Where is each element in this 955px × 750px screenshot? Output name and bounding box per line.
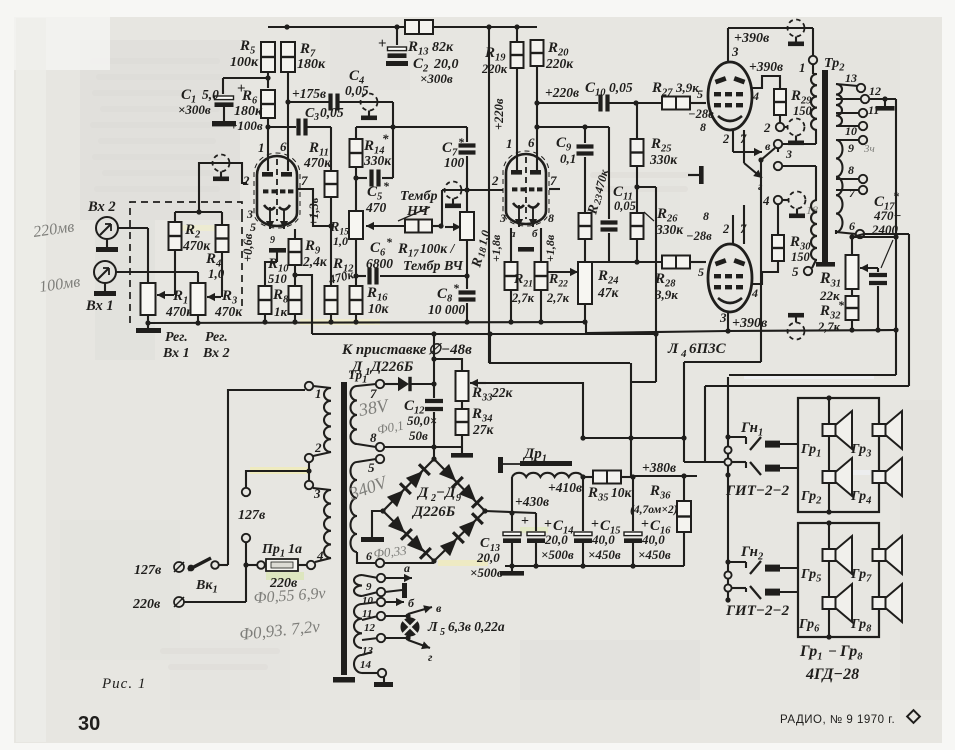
label R21 bbox=[511, 272, 535, 305]
wire output common bbox=[893, 99, 898, 375]
wire CT B+ drop bbox=[758, 148, 778, 362]
wire anode row y127 bbox=[534, 124, 609, 129]
svg-text:1: 1 bbox=[258, 140, 265, 155]
svg-text:470к: 470к bbox=[214, 304, 243, 319]
svg-text:11: 11 bbox=[868, 103, 879, 117]
svg-text:22к: 22к bbox=[819, 288, 840, 303]
svg-text:5,0: 5,0 bbox=[202, 87, 219, 102]
speaker Gr4 bbox=[873, 458, 903, 496]
svg-text:+380в: +380в bbox=[642, 460, 676, 475]
speaker box 1 bbox=[798, 395, 879, 514]
resistor R10 bbox=[289, 275, 302, 325]
svg-text:9: 9 bbox=[270, 235, 275, 246]
label +220v bbox=[545, 85, 579, 100]
svg-text:+220в: +220в bbox=[492, 98, 506, 130]
label C5 bbox=[365, 179, 390, 215]
label C4 bbox=[345, 68, 369, 98]
pin labels L3 bbox=[491, 135, 557, 240]
pot R15 bass bbox=[349, 178, 363, 239]
svg-text:330к: 330к bbox=[655, 222, 684, 237]
shield mid lower bbox=[782, 192, 806, 219]
svg-text:4: 4 bbox=[751, 286, 758, 300]
jack Gn2 node2 bbox=[725, 597, 730, 602]
label C8 bbox=[428, 281, 465, 317]
diode D1 bbox=[384, 377, 437, 391]
wire mains up bbox=[228, 390, 305, 565]
label 11 bbox=[362, 608, 372, 620]
svg-text:+: + bbox=[544, 517, 552, 532]
label R17 bbox=[397, 241, 463, 274]
pencil F01 bbox=[376, 418, 405, 437]
cathode ground out bbox=[688, 166, 704, 184]
svg-text:10: 10 bbox=[362, 595, 374, 607]
capacitor C13 bbox=[503, 513, 521, 569]
arrow g feed bbox=[744, 163, 763, 193]
dashed screen box bbox=[130, 202, 242, 323]
label +0,6в bbox=[241, 233, 255, 262]
resistor R35 bbox=[583, 471, 636, 484]
svg-text:1: 1 bbox=[315, 386, 322, 401]
wire R11-R12 bbox=[330, 226, 332, 286]
svg-text:Рис. 1: Рис. 1 bbox=[101, 676, 146, 692]
jack Gn2 term2 bbox=[724, 584, 731, 591]
label L4 6P3S bbox=[667, 341, 727, 360]
anode wire upper bbox=[728, 28, 739, 63]
label Vx1 bbox=[85, 298, 114, 314]
label C12 bbox=[404, 398, 437, 443]
svg-text:127в: 127в bbox=[238, 508, 266, 523]
label Pr1 bbox=[261, 542, 302, 560]
Tr2 primary upper bbox=[811, 64, 817, 130]
resistor R22 bbox=[535, 228, 548, 325]
svg-text:*: * bbox=[838, 298, 845, 312]
svg-text:Вх 2: Вх 2 bbox=[87, 199, 116, 215]
bridge diamond bbox=[380, 456, 487, 563]
pin 5 upper bbox=[697, 87, 703, 101]
label 9 bbox=[366, 581, 372, 593]
wire term6 right bbox=[864, 233, 909, 235]
pot R3 bbox=[191, 283, 222, 315]
speaker Gr6 bbox=[823, 584, 853, 622]
svg-text:+175в: +175в bbox=[292, 86, 326, 101]
pencil 220mv bbox=[32, 218, 75, 241]
resistor R2 bbox=[169, 212, 182, 250]
jack Gn2 node1 bbox=[725, 559, 730, 564]
label RADIO footer bbox=[780, 714, 895, 726]
svg-text:20,0: 20,0 bbox=[476, 550, 500, 565]
wire R4 wiper bbox=[221, 252, 223, 297]
label +175в bbox=[292, 86, 326, 101]
label D1 D226B bbox=[350, 359, 414, 378]
filament pins lower bbox=[722, 222, 747, 236]
wire pots bottom bbox=[145, 315, 200, 326]
jack Gn2 term1 bbox=[724, 571, 731, 578]
arrow v bbox=[408, 601, 442, 615]
svg-text:1,0: 1,0 bbox=[333, 234, 348, 248]
label R33 bbox=[471, 385, 514, 404]
svg-text:3: 3 bbox=[719, 310, 727, 325]
label 13 bbox=[362, 645, 374, 657]
svg-text:а: а bbox=[404, 561, 410, 575]
svg-text:3,9к: 3,9к bbox=[654, 287, 678, 302]
Tr1 sec 7-8 bbox=[351, 380, 385, 451]
Tr2 core end bar bbox=[816, 262, 835, 267]
svg-text:−Д: −Д bbox=[436, 485, 456, 501]
resistor R4 bbox=[216, 212, 229, 252]
label +390 screen bbox=[749, 59, 783, 74]
capacitor C10 bbox=[601, 95, 608, 112]
svg-text:220в: 220в bbox=[132, 597, 161, 612]
node C1 tap bbox=[265, 75, 270, 80]
svg-text:470−: 470− bbox=[873, 208, 902, 223]
label R25 bbox=[649, 136, 678, 167]
terminal 11 bbox=[836, 103, 879, 117]
svg-text:*: * bbox=[386, 235, 393, 249]
svg-text:+: + bbox=[521, 514, 529, 529]
resistor R20 bbox=[531, 40, 544, 66]
label R9 bbox=[302, 238, 328, 269]
label Gr8 bbox=[850, 617, 872, 635]
svg-text:40,0: 40,0 bbox=[641, 532, 665, 547]
wire bridge bottom bbox=[384, 561, 434, 563]
label D2-D9 bbox=[411, 485, 461, 520]
label C16 bbox=[638, 517, 671, 562]
wire y438 bbox=[580, 435, 686, 440]
svg-text:9: 9 bbox=[456, 493, 461, 504]
bridge diodes D4-D5 bbox=[439, 464, 483, 508]
svg-text:6,3в 0,22а: 6,3в 0,22а bbox=[448, 619, 505, 634]
label R19 bbox=[481, 45, 508, 76]
resistor R5 bbox=[261, 42, 275, 72]
svg-text:0,05: 0,05 bbox=[320, 105, 344, 120]
label Tr2 bbox=[824, 56, 845, 74]
label Tr1 bbox=[348, 367, 367, 386]
label 22k bbox=[819, 288, 840, 303]
label Vx2 bbox=[87, 199, 116, 215]
fuse Pr1 bbox=[246, 559, 307, 571]
wire anode6 L3 bbox=[536, 66, 538, 172]
svg-text:330к: 330к bbox=[649, 152, 678, 167]
svg-text:4: 4 bbox=[762, 193, 770, 208]
wiper arrow R31 bbox=[860, 264, 878, 272]
capacitor C17 bbox=[869, 268, 887, 333]
capacitor C7 bbox=[459, 127, 476, 193]
svg-text:ГИТ−2−2: ГИТ−2−2 bbox=[725, 483, 790, 499]
chassis bar 10 bbox=[385, 583, 407, 598]
label C17 bbox=[871, 189, 902, 237]
svg-text:6П3С: 6П3С bbox=[689, 341, 727, 357]
svg-text:×450в: ×450в bbox=[588, 547, 621, 562]
svg-text:б: б bbox=[408, 596, 415, 610]
label 14 bbox=[360, 659, 372, 671]
label R12 bbox=[326, 256, 355, 287]
terminal 3b Tr2 bbox=[774, 162, 816, 200]
svg-text:С: С bbox=[480, 536, 490, 551]
label R5 bbox=[230, 38, 259, 70]
capacitor C2 bbox=[378, 24, 408, 66]
svg-text:6800: 6800 bbox=[366, 256, 393, 271]
label R32 bbox=[817, 298, 845, 334]
Tr1 core bbox=[341, 382, 347, 675]
node +175v bbox=[285, 99, 290, 104]
svg-text:Тембр ВЧ: Тембр ВЧ bbox=[403, 259, 463, 274]
cathode bar L1 bbox=[265, 248, 286, 286]
svg-text:6: 6 bbox=[528, 135, 535, 150]
label Gr1 bbox=[800, 442, 821, 460]
svg-text:Д226Б: Д226Б bbox=[369, 359, 414, 375]
svg-text:12: 12 bbox=[364, 622, 376, 634]
wire grid drop bbox=[441, 190, 443, 226]
wire B+ riser bbox=[631, 363, 656, 476]
svg-text:2: 2 bbox=[491, 173, 499, 188]
label +390v top bbox=[734, 31, 770, 46]
svg-text:×300в: ×300в bbox=[420, 71, 453, 86]
svg-text:+: + bbox=[378, 36, 387, 52]
terminal 8 bbox=[836, 163, 867, 183]
label +390v bottom bbox=[732, 316, 768, 331]
wire grid2 R11 bbox=[298, 189, 331, 226]
resistor R19 bbox=[511, 27, 524, 68]
label C1 bbox=[178, 87, 219, 117]
label R4 bbox=[205, 251, 225, 281]
Tr1 sec 5-6 bbox=[351, 455, 385, 567]
wire spk feed bbox=[729, 374, 896, 376]
wire ground bus bbox=[148, 322, 586, 323]
label Gr2 bbox=[800, 489, 822, 507]
label R28 bbox=[654, 271, 678, 302]
shield bottom bbox=[788, 313, 805, 340]
wire R7 down bbox=[287, 72, 289, 171]
Tr1 primary lower bbox=[313, 488, 331, 562]
svg-text:Рег.: Рег. bbox=[205, 330, 228, 345]
Tr2 secondary 1 bbox=[836, 84, 858, 126]
jack Gn2 contact2 bbox=[732, 586, 798, 599]
svg-text:г: г bbox=[428, 650, 433, 664]
pot R31 bbox=[846, 237, 859, 289]
capacitor C3 bbox=[299, 119, 306, 136]
Tr1 heater 9-10 bbox=[354, 574, 385, 596]
Tr2 primary CT wires bbox=[782, 130, 816, 144]
ground 8 row bbox=[451, 447, 473, 458]
svg-text:Вх 2: Вх 2 bbox=[202, 346, 230, 361]
svg-text:*: * bbox=[382, 131, 389, 146]
arrow a bbox=[385, 561, 412, 582]
label 220v fuse bbox=[269, 576, 298, 591]
capacitor C1 bbox=[212, 81, 246, 126]
filament wires lower bbox=[733, 205, 744, 244]
switch Vk1 bbox=[134, 558, 228, 578]
pot R1 bbox=[141, 283, 175, 315]
pencil F033 bbox=[373, 543, 408, 561]
svg-text:+1,8в: +1,8в bbox=[489, 234, 503, 262]
jack Gn1 contact2 bbox=[732, 462, 798, 475]
svg-text:50,0×: 50,0× bbox=[407, 413, 437, 428]
svg-text:Д226Б: Д226Б bbox=[411, 504, 456, 520]
svg-text:20,0: 20,0 bbox=[544, 532, 568, 547]
svg-text:8: 8 bbox=[548, 211, 554, 225]
tube L3 6N2P bbox=[503, 151, 549, 227]
svg-text:+0,6в: +0,6в bbox=[241, 233, 255, 262]
wire R9 feedback bbox=[295, 275, 312, 334]
wire R6 to anode1 bbox=[267, 118, 269, 171]
svg-text:7: 7 bbox=[550, 173, 557, 188]
resistor R23 bbox=[579, 213, 592, 262]
svg-text:×500в: ×500в bbox=[470, 565, 503, 580]
svg-text:8: 8 bbox=[370, 430, 377, 445]
label Reg Vx1 bbox=[162, 330, 190, 361]
label R34 bbox=[471, 406, 495, 437]
label R16 bbox=[366, 285, 390, 316]
label 12 bbox=[364, 622, 376, 634]
wire 8 row bbox=[384, 446, 462, 448]
svg-text:4ГД−28: 4ГД−28 bbox=[805, 666, 859, 683]
svg-text:+390в: +390в bbox=[734, 31, 770, 46]
tube L4 upper bbox=[708, 62, 752, 130]
terminal 3a Tr2 bbox=[774, 140, 792, 161]
terminal 1 Tr2 bbox=[799, 56, 817, 75]
ground 340 tap bbox=[361, 511, 384, 542]
svg-text:13: 13 bbox=[845, 71, 857, 85]
Tr2 core bbox=[822, 70, 828, 266]
svg-text:Л: Л bbox=[667, 341, 679, 357]
wire lamp top bbox=[385, 613, 411, 618]
wire C10-R27 bbox=[609, 100, 662, 105]
wire step net bbox=[487, 331, 630, 363]
svg-text:−28в: −28в bbox=[686, 229, 712, 243]
terminal 4 Tr1 bbox=[307, 548, 324, 569]
svg-text:*: * bbox=[383, 179, 390, 193]
label K pristavke bbox=[341, 342, 472, 358]
svg-text:150: 150 bbox=[793, 104, 813, 118]
label 127v tap bbox=[238, 508, 266, 523]
terminal 5 Tr2 bbox=[792, 260, 816, 279]
label R10 510 bbox=[267, 256, 289, 286]
jack Gn1 node2 bbox=[725, 472, 730, 477]
label L5 bbox=[427, 619, 505, 638]
svg-text:9: 9 bbox=[848, 141, 854, 155]
wire fb row bbox=[486, 383, 583, 438]
input jack Vx1 bbox=[94, 261, 116, 283]
wire grid row L2 bbox=[442, 189, 503, 191]
shield grid L2 bbox=[445, 182, 462, 209]
label Tembr NCh bbox=[398, 189, 438, 221]
wire R5-R6 bbox=[267, 72, 269, 88]
svg-text:ГИТ−2−2: ГИТ−2−2 bbox=[725, 603, 790, 619]
node +220 bbox=[534, 100, 539, 105]
speaker Gr2 bbox=[823, 458, 853, 496]
svg-text:Вх 1: Вх 1 bbox=[162, 346, 190, 361]
bridge diodes D2-D3 bbox=[387, 464, 430, 507]
label C2 bbox=[413, 56, 459, 86]
svg-text:10: 10 bbox=[845, 124, 857, 138]
wire term6 node bbox=[835, 230, 837, 234]
shield input grid bbox=[213, 155, 230, 182]
wire out row bbox=[684, 361, 761, 363]
pin labels L1 bbox=[242, 139, 308, 246]
node R5/R7 top bbox=[284, 24, 519, 29]
wire R2 wiper bbox=[174, 250, 176, 295]
wire R29 term2 bbox=[779, 115, 781, 123]
svg-text:470к: 470к bbox=[303, 155, 332, 170]
capacitor C15 bbox=[574, 477, 592, 569]
pencil 340V bbox=[346, 471, 391, 504]
svg-text:40,0: 40,0 bbox=[591, 532, 615, 547]
wire Vx1 to R1 bbox=[116, 272, 198, 285]
svg-text:+: + bbox=[591, 517, 599, 532]
resistor R17 bbox=[405, 220, 444, 233]
wire bus step bbox=[586, 322, 894, 333]
arrow v feed bbox=[733, 139, 771, 156]
speaker Gr3 bbox=[873, 411, 903, 449]
svg-text:10 000: 10 000 bbox=[428, 302, 465, 317]
svg-text:5: 5 bbox=[368, 460, 375, 475]
svg-text:2,4к: 2,4к bbox=[302, 254, 328, 269]
wire bridge out bbox=[485, 510, 536, 515]
pencil 3ch bbox=[863, 143, 875, 155]
svg-text:7: 7 bbox=[301, 173, 308, 188]
wire +380 rail bbox=[633, 473, 697, 478]
svg-text:2: 2 bbox=[314, 440, 322, 455]
svg-text:+220в: +220в bbox=[545, 85, 579, 100]
Tr1 core ground bbox=[333, 677, 355, 683]
svg-text:3: 3 bbox=[313, 112, 319, 123]
capacitor C8 bbox=[459, 240, 476, 325]
svg-text:220к: 220к bbox=[481, 62, 508, 76]
svg-text:82к: 82к bbox=[432, 40, 454, 55]
svg-text:10к: 10к bbox=[611, 485, 633, 500]
svg-text:8: 8 bbox=[700, 120, 706, 134]
shield mid upper bbox=[784, 119, 805, 146]
wire R31 top bbox=[849, 234, 896, 240]
terminal sel tap bbox=[242, 534, 250, 542]
Tr2 primary lower bbox=[811, 200, 817, 260]
svg-text:30: 30 bbox=[78, 713, 100, 735]
label C14 bbox=[541, 517, 574, 562]
wire C1 feed bbox=[223, 78, 268, 94]
wire term4-R30 bbox=[777, 204, 779, 235]
speaker Gr7 bbox=[873, 536, 903, 574]
svg-text:Д: Д bbox=[416, 485, 429, 501]
capacitor C16 bbox=[624, 477, 642, 569]
svg-text:127в: 127в bbox=[134, 563, 162, 578]
svg-text:0,05: 0,05 bbox=[614, 199, 636, 213]
svg-text:1а: 1а bbox=[288, 542, 302, 557]
pot R33 feedback bbox=[456, 371, 487, 401]
capacitor C14 bbox=[521, 513, 545, 569]
label 4GD-28 bbox=[805, 666, 859, 683]
jack Gn1 node1 bbox=[725, 434, 730, 439]
wire filter bus bbox=[505, 565, 684, 567]
svg-text:2: 2 bbox=[722, 132, 729, 146]
footer diamond bbox=[907, 710, 920, 723]
bridge diodes D8-D9 bbox=[440, 513, 483, 556]
svg-text:Вх 1: Вх 1 bbox=[85, 298, 114, 314]
label C7 bbox=[442, 135, 465, 170]
wire C4 out bbox=[339, 102, 396, 130]
resistor R36 bbox=[677, 476, 691, 566]
svg-text:2,7к: 2,7к bbox=[511, 291, 535, 305]
svg-text:10к: 10к bbox=[368, 301, 390, 316]
terminal 2 Tr1 bbox=[305, 440, 322, 462]
terminal 127v tap bbox=[242, 488, 250, 496]
svg-text:150: 150 bbox=[791, 250, 811, 264]
label C15 bbox=[588, 517, 621, 562]
wire grid2 row y262 bbox=[585, 261, 662, 263]
svg-text:3: 3 bbox=[499, 211, 506, 225]
svg-text:1: 1 bbox=[506, 136, 513, 151]
wire 12 to common bbox=[869, 96, 896, 101]
label C3 bbox=[305, 105, 344, 123]
